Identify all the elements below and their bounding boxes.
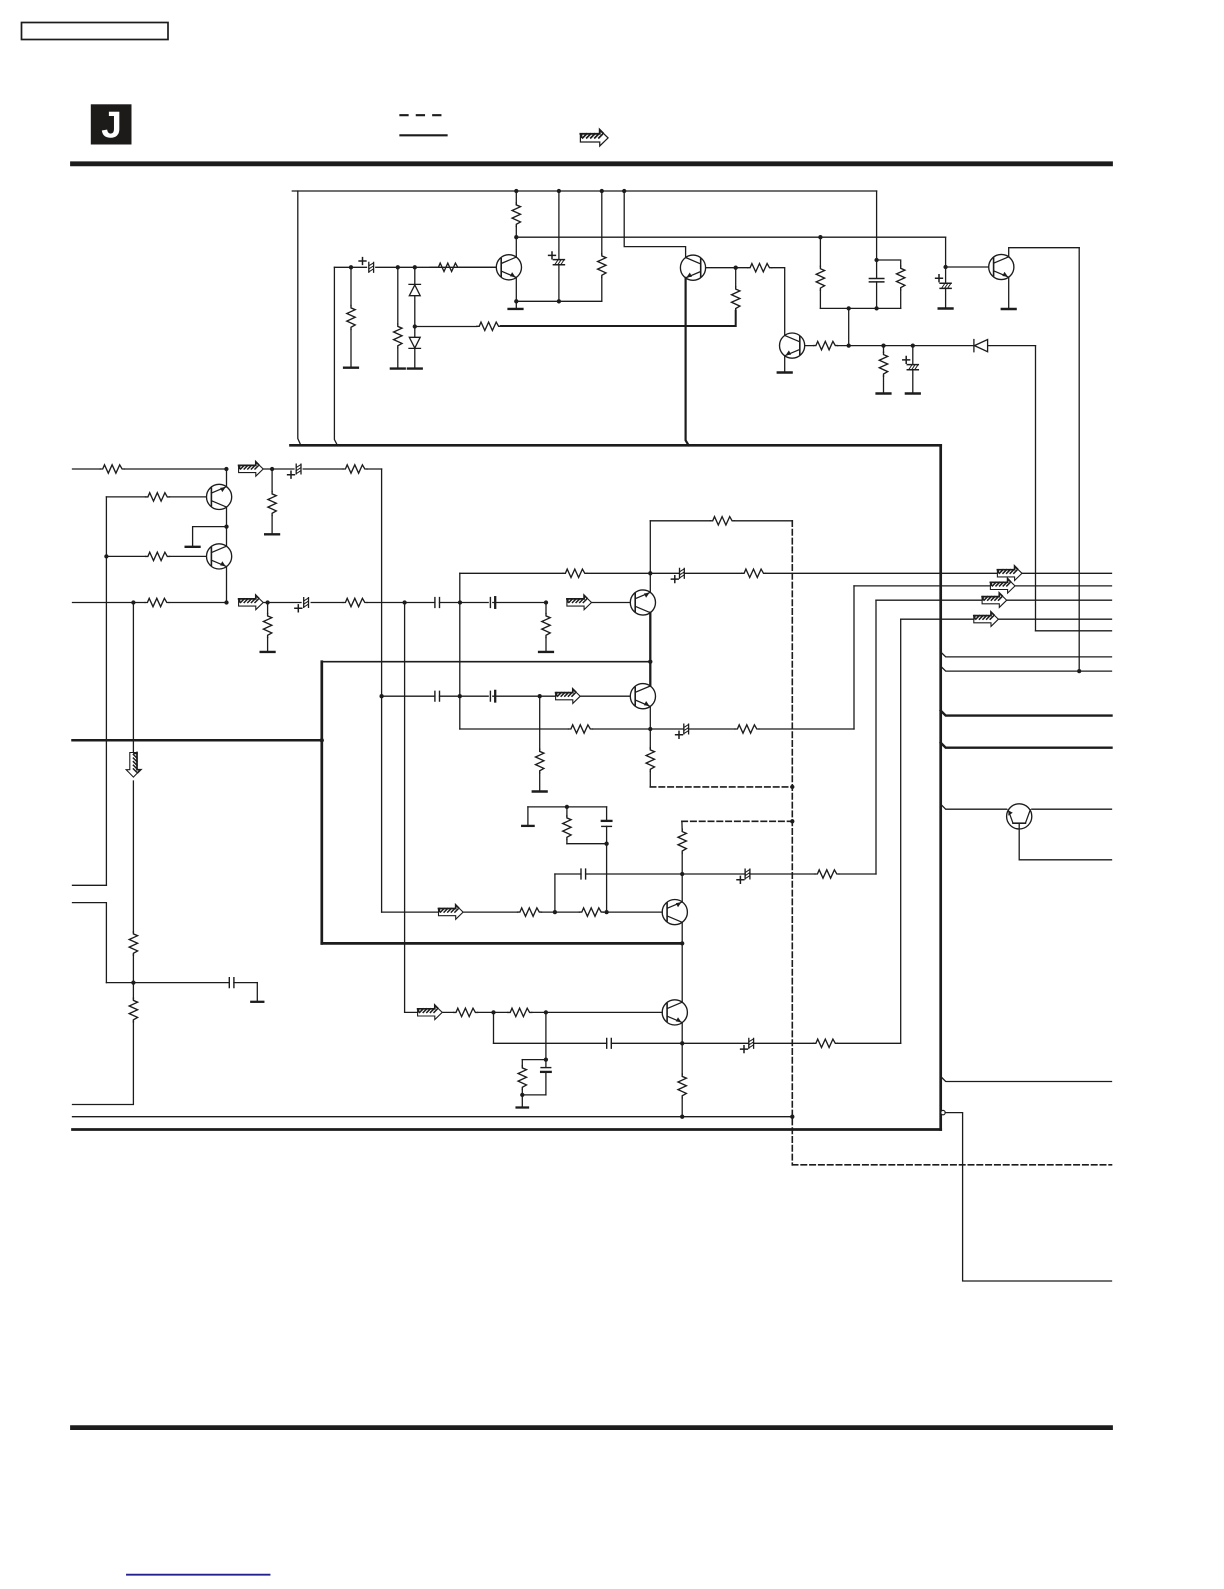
wire stub y=902.6 + drop x=106.4 bbox=[73, 903, 107, 983]
wire row y=1043.3 bbox=[494, 1042, 901, 1044]
node dots row602 bbox=[131, 600, 135, 604]
resistor R2 vertical left leg bbox=[350, 267, 352, 305]
wire riser x=876 to row 600.2 bbox=[875, 600, 877, 874]
electrolytic C3 vertical to ground bbox=[912, 346, 914, 365]
ground g8 bbox=[939, 308, 953, 310]
resistor R5 vertical riser to Q2 base node bbox=[732, 287, 740, 311]
wire feed row y=237.2 bbox=[516, 236, 945, 238]
wire Q2 base to node bbox=[706, 267, 748, 269]
resistor R15 vertical to ground bbox=[271, 469, 273, 492]
wire row y=729 bbox=[460, 728, 854, 730]
resistor R37 bbox=[814, 1039, 838, 1047]
wire corner x=493.5 down bbox=[493, 1012, 495, 1043]
legend signal arrow bbox=[580, 130, 608, 146]
wire Q11 emitter bbox=[681, 1023, 683, 1044]
transistor Q6 bbox=[630, 684, 655, 709]
resistor R24 bbox=[563, 569, 587, 577]
resistor R10 vertical to ground bbox=[883, 346, 885, 353]
wire riser x=854 to row 585.9 bbox=[853, 586, 855, 729]
connector circle on bus bbox=[941, 1110, 945, 1114]
node dot mid bbox=[224, 524, 228, 528]
capacitor C1 polarized inline bbox=[369, 262, 374, 272]
transistor Q8 bbox=[207, 544, 232, 569]
wire emitter row y=301.3 bbox=[516, 300, 602, 302]
capacitor C16 vertical bbox=[606, 807, 608, 821]
node dot y=573.3 bbox=[648, 571, 652, 575]
wire long vertical x=1035.5 down to row 630.8 bbox=[1035, 346, 1037, 631]
resistor R27 bbox=[569, 725, 593, 733]
wire row y=656.9 bbox=[941, 652, 1112, 657]
resistor R28 bbox=[735, 725, 759, 733]
RC pair: feed node x=820.4 bbox=[818, 235, 822, 239]
wire x=682.2 to Q11 collector bbox=[681, 943, 683, 1002]
wire riser x=900.7 to row 619.2 bbox=[900, 619, 902, 1043]
wire vertical x=381.6 bbox=[381, 469, 383, 912]
dashed wire y=821.3 bbox=[682, 820, 792, 822]
wire Q3 emitter to ground bbox=[784, 356, 786, 371]
top corner wire x=876.6 bbox=[876, 191, 878, 278]
resistor R33 bbox=[518, 908, 542, 916]
wire from connector to row 1281 bbox=[945, 1113, 1111, 1281]
wire rc top bbox=[522, 1059, 546, 1061]
wire Q4 emitter to ground bbox=[1008, 277, 1010, 307]
wire row y=809.2 left of Q9 bbox=[941, 804, 1007, 809]
resistor R22 bbox=[710, 517, 734, 525]
wire row y=874 bbox=[555, 873, 876, 875]
legend solid line bbox=[400, 134, 446, 136]
node dots row469 bbox=[224, 467, 228, 471]
wire from RC bottom to base row x=848.7 bbox=[848, 308, 850, 345]
resistor R11 vertical bbox=[819, 237, 821, 266]
capacitor C4 (plates horizontal) bbox=[869, 279, 883, 282]
wire Q7 collector bbox=[226, 469, 228, 487]
ground g9 bbox=[1002, 308, 1016, 310]
wire row y=671.1 bbox=[941, 666, 1112, 671]
resistor R4 horizontal on thick feed y=326.5 bbox=[415, 326, 477, 328]
wire row y=602.5 bbox=[73, 602, 631, 604]
transistor Q2 (mirrored) bbox=[680, 255, 705, 280]
wire row y=696.2 bbox=[382, 695, 631, 697]
signal arrow bbox=[418, 1005, 443, 1019]
node dots bbox=[491, 1010, 495, 1014]
resistor R35 bbox=[454, 1008, 478, 1016]
legend dashed line bbox=[400, 114, 441, 116]
resistor R6 vertical above Q1 bbox=[515, 191, 517, 205]
wire row y=469 bbox=[73, 468, 382, 470]
node dot thick junction bbox=[320, 738, 324, 742]
wire row y=809.2 right of Q9 bbox=[1032, 808, 1112, 810]
wire row y=600.2 bbox=[876, 599, 1112, 601]
node dot on thin rail bbox=[680, 1115, 684, 1119]
capacitor C18 polarized bbox=[749, 1038, 754, 1048]
title box (empty) top-left bbox=[22, 23, 169, 40]
transistor Q11 bbox=[662, 1000, 687, 1025]
wire corner to dashed row bbox=[649, 772, 651, 787]
signal arrow bbox=[239, 462, 264, 476]
wire thick row y=747.7 bbox=[941, 743, 1112, 748]
wire Q3 base row y=345.6 bbox=[805, 345, 974, 347]
node dot y=661.7 bbox=[648, 660, 652, 664]
capacitor C7 polarized bbox=[304, 598, 309, 608]
wire thick bus y=445.3 bbox=[291, 444, 941, 447]
bottom rail y=308.4 bbox=[820, 307, 900, 309]
wire Q7 emitter / Q8 collector bbox=[226, 507, 228, 546]
resistor R16 bbox=[146, 493, 170, 501]
wire vertical x=460 down to row 729 bbox=[459, 573, 461, 729]
wire thick bus right edge x=940.7 bbox=[939, 445, 942, 1129]
capacitor C17 bbox=[607, 1038, 612, 1048]
signal arrow bbox=[556, 689, 581, 703]
resistor R31 bbox=[815, 870, 839, 878]
wire thick y=740.3 left bbox=[73, 739, 322, 742]
diode D3 (cathode left) bbox=[974, 340, 1036, 352]
header rule bbox=[73, 161, 1111, 166]
resistor R30 vertical bbox=[681, 1043, 683, 1074]
wire Q6 emitter down bbox=[649, 706, 651, 748]
node dot rail/R6 bbox=[514, 189, 518, 193]
dashed wire y=1164.8 bbox=[792, 1164, 1111, 1166]
ground g3 bbox=[408, 368, 422, 370]
node dots base row bbox=[847, 343, 851, 347]
wire row y=630.8 bbox=[1036, 630, 1112, 632]
wire rc bottom y=843.7 bbox=[567, 843, 607, 845]
node D dot bbox=[413, 324, 417, 328]
capacitor C20 bbox=[229, 978, 234, 988]
capacitor C11 bbox=[435, 691, 440, 701]
wire vertical x=106.4 bbox=[105, 497, 107, 885]
wire rc bottom bbox=[522, 1094, 546, 1096]
wire Q1 emitter to ground bbox=[515, 277, 517, 307]
resistor R1 horizontal in Q1 base bbox=[436, 263, 460, 271]
signal arrow bbox=[239, 595, 264, 609]
capacitor C12 bbox=[490, 691, 495, 702]
node B dot bbox=[396, 265, 400, 269]
wire row y=520.8 bbox=[650, 520, 792, 522]
wire: top rail y=191 bbox=[292, 190, 876, 192]
node dot bbox=[538, 694, 542, 698]
ground g7 bbox=[906, 393, 920, 395]
wire row y=585.9 bbox=[854, 585, 1112, 587]
resistor R39 vertical bbox=[129, 932, 137, 956]
dashed wire y=786.9 bbox=[650, 786, 792, 788]
wire row y=982.6 bbox=[106, 982, 257, 984]
wire x=545.9 down to rc bbox=[545, 1012, 547, 1059]
transistor Q3 (mirrored) bbox=[780, 333, 805, 358]
wire vertical x=133.4 bbox=[73, 603, 134, 1105]
wire Q2 emitter (thick) to bus bbox=[686, 278, 689, 445]
wire box top y=661.7 bbox=[322, 661, 651, 663]
transistor Q10 bbox=[662, 900, 687, 925]
wire Q8 base bbox=[106, 555, 206, 557]
resistor R25 bbox=[742, 569, 766, 577]
capacitor C14 bbox=[581, 869, 586, 879]
resistor R20 vertical to ground bbox=[267, 603, 269, 614]
resistor R21 vertical to ground bbox=[545, 603, 547, 614]
wire: vertical x=334.4 from node row to bus bbox=[334, 267, 337, 445]
capacitor C10 polarized bbox=[680, 568, 685, 578]
electrolytic C5 vertical to ground bbox=[945, 267, 947, 283]
ground g13 bbox=[539, 651, 553, 653]
wire rc rail y=806.9 bbox=[528, 806, 607, 808]
resistor R34 bbox=[579, 908, 603, 916]
capacitor C15 polarized bbox=[745, 869, 750, 879]
wire thick bus bottom y=1129.5 bbox=[73, 1128, 941, 1131]
signal arrow bbox=[439, 905, 464, 919]
wire thick row y=715.6 bbox=[941, 711, 1112, 716]
ground g5 bbox=[778, 372, 792, 374]
capacitor C8 bbox=[435, 598, 440, 608]
ground g6 bbox=[877, 393, 891, 395]
node dot y=874 bbox=[680, 872, 684, 876]
wire Q7 base bbox=[106, 496, 206, 498]
resistor R19 bbox=[343, 598, 367, 606]
wire top of R12 bbox=[877, 260, 901, 266]
wire: base row y=267.3 to Q1 bbox=[334, 266, 496, 268]
wire row y=1081.5 bbox=[941, 1077, 1112, 1082]
wire corner + ground g17 bbox=[256, 983, 258, 1001]
wire left leg + ground g15 bbox=[527, 807, 529, 825]
node dot Q1 collector bbox=[514, 235, 518, 239]
electrolytic C2 vertical bbox=[558, 191, 560, 260]
node C dot bbox=[413, 265, 417, 269]
ground g4 bbox=[509, 308, 523, 310]
transistor Q1 bbox=[496, 255, 521, 280]
wire Q2 collector feed bbox=[624, 191, 685, 258]
node dot y=911.8 bbox=[604, 910, 608, 914]
resistor R13 bbox=[100, 465, 124, 473]
ground g10 bbox=[265, 533, 279, 535]
wire Q10 collector bbox=[681, 874, 683, 902]
capacitor C6 polarized bbox=[296, 464, 301, 474]
transistor Q7 bbox=[207, 484, 232, 509]
node dot y=982.6 bbox=[131, 980, 135, 984]
wire thin rail y=1116.7 bbox=[73, 1116, 793, 1118]
wire row y=619.2 bbox=[901, 618, 1112, 620]
diode D2 (cathode down) bbox=[409, 327, 421, 368]
wire thick box y=943.4 bbox=[322, 942, 682, 945]
capacitor C9 bbox=[490, 597, 495, 608]
node dot y=1043.3 bbox=[680, 1041, 684, 1045]
wire: block left edge x=297.8 bbox=[298, 191, 301, 445]
resistor R29 vertical x=682.2 bbox=[681, 821, 683, 830]
signal arrow bbox=[997, 566, 1022, 580]
wire thick box left x=321.8 bbox=[320, 662, 323, 944]
wire corner x=945.6 to Q4 base bbox=[946, 237, 989, 267]
resistor R18 bbox=[145, 598, 169, 606]
wire Q4 collector up and right to x=1079.2 bbox=[1009, 248, 1079, 257]
transistor Q5 bbox=[630, 590, 655, 615]
wire row y=1012.4 bbox=[405, 1011, 663, 1013]
resistor R32 vertical bbox=[566, 807, 568, 817]
resistor R7 vertical bbox=[601, 191, 603, 254]
wire thick y=325.8 to x=735.7 riser bbox=[501, 311, 736, 326]
dashed wire vertical x=792.3 bbox=[791, 521, 793, 1165]
node dot y=943.4 bbox=[680, 941, 684, 945]
capacitor C19 vertical bbox=[545, 1060, 547, 1068]
signal arrow 2 bbox=[567, 595, 592, 609]
section badge J bbox=[91, 104, 132, 145]
wire to Q3 collector drop bbox=[772, 268, 785, 336]
wire stub y=885.3 bbox=[73, 884, 107, 886]
ground g2 bbox=[391, 368, 405, 370]
transistor Q9 (rotated) bbox=[1007, 804, 1032, 829]
ground g12 bbox=[261, 651, 275, 653]
wire Q5 collector up to row573 and y=520.8 bbox=[649, 521, 651, 593]
node dot y=729 bbox=[648, 727, 652, 731]
node dot emitter row bbox=[514, 299, 518, 303]
resistor R17 bbox=[146, 552, 170, 560]
wire Q5 emitter down (thick) bbox=[649, 613, 651, 686]
wire Q10 emitter bbox=[681, 922, 683, 943]
resistor R40 vertical bbox=[129, 998, 137, 1022]
wire row y=573.3 bbox=[460, 572, 1112, 574]
transistor Q4 bbox=[989, 254, 1014, 279]
footer blue link underline bbox=[127, 1574, 270, 1576]
resistor R3 vertical second leg bbox=[397, 267, 399, 324]
footer rule bbox=[73, 1425, 1111, 1430]
capacitor C13 polarized bbox=[684, 724, 689, 734]
node dots C2 bbox=[557, 189, 561, 193]
signal arrow down bbox=[126, 753, 140, 778]
wire row y=912 bbox=[382, 911, 663, 913]
ground g1 bbox=[344, 367, 358, 369]
ground g16 bbox=[521, 1095, 523, 1106]
resistor R23 vertical bbox=[646, 748, 654, 772]
resistor R36 bbox=[508, 1008, 532, 1016]
ground g14 bbox=[533, 791, 547, 793]
diode D1 (cathode up) bbox=[409, 267, 421, 326]
resistor R9 horizontal bbox=[814, 341, 838, 349]
ground g11 bbox=[186, 546, 200, 548]
node A dot bbox=[349, 265, 353, 269]
wire Q9 base lead to row 859.8 bbox=[1019, 823, 1111, 860]
resistor R12 vertical bbox=[897, 266, 905, 290]
resistor R26 vertical to ground bbox=[539, 696, 541, 750]
wire Q8 emitter down to row 602 bbox=[226, 567, 228, 603]
resistor R14 bbox=[343, 465, 367, 473]
wire Q1 collector bbox=[515, 237, 517, 257]
resistor R8 horizontal bbox=[748, 264, 772, 272]
svg-text:J: J bbox=[101, 105, 122, 146]
wire to ground L bbox=[193, 527, 227, 546]
wire long vertical x=1079.2 bbox=[1078, 248, 1080, 671]
wire vertical x=404.6 bbox=[404, 603, 406, 1013]
wire corner x=554.9 down to row 912 bbox=[554, 874, 556, 912]
resistor R38 vertical bbox=[521, 1060, 523, 1067]
